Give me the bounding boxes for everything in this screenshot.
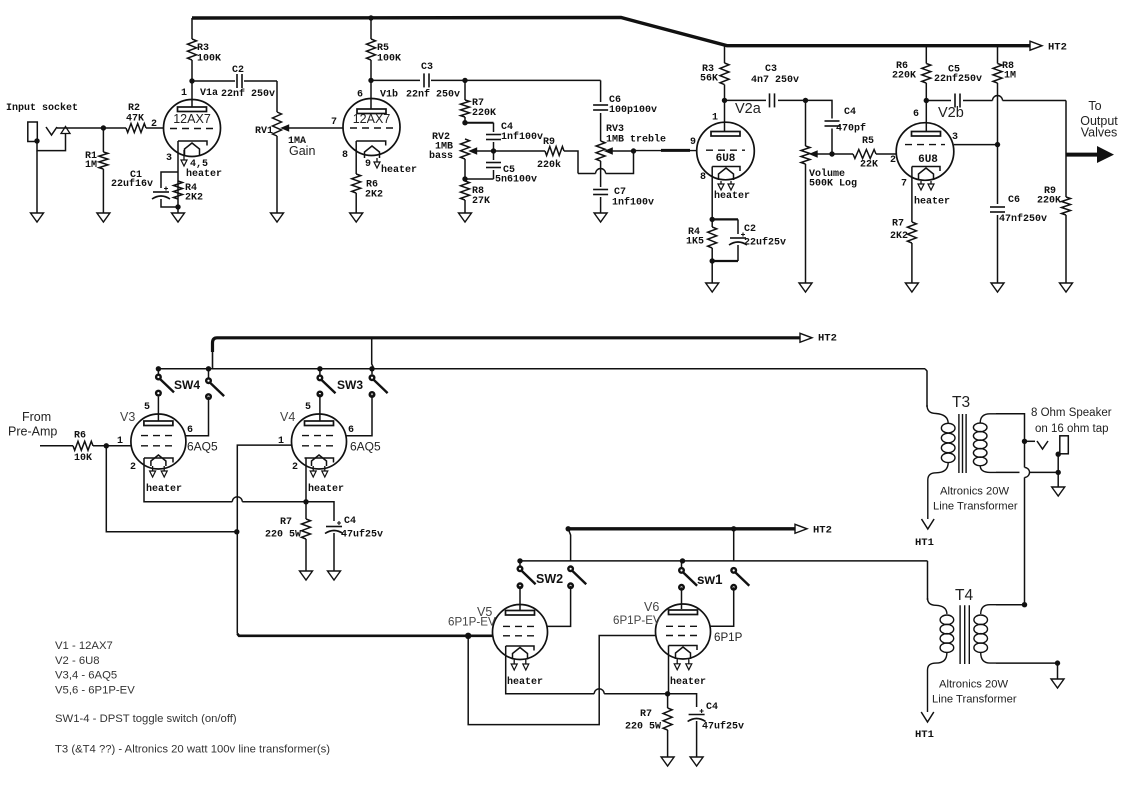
wire T3 secondary top — [996, 414, 1030, 605]
resistor R4 1K5 — [686, 227, 717, 283]
wire cathode bus V5/V6 — [506, 646, 697, 707]
svg-text:5n6100v: 5n6100v — [495, 175, 537, 186]
node tone stack top — [462, 78, 600, 83]
resistor R7 220K — [461, 80, 497, 122]
svg-text:1: 1 — [712, 113, 718, 124]
svg-text:22nf250v: 22nf250v — [934, 73, 982, 85]
node V1b plate — [368, 78, 373, 83]
svg-text:To: To — [1088, 99, 1101, 113]
resistor R6 220K (V2b) — [892, 46, 931, 132]
svg-text:V2a: V2a — [735, 101, 762, 117]
tube V3 6AQ5 — [117, 397, 218, 495]
resistor R4 2K2 — [174, 181, 204, 204]
label T4 transformer — [932, 679, 1017, 706]
svg-text:RV1: RV1 — [255, 126, 273, 137]
svg-text:7: 7 — [901, 179, 907, 190]
svg-text:2: 2 — [130, 462, 136, 473]
svg-text:C3: C3 — [765, 64, 777, 75]
Input socket label — [6, 102, 78, 114]
ground (R7) — [300, 571, 313, 580]
resistor R8 27K — [461, 181, 491, 213]
svg-text:V2 - 6U8: V2 - 6U8 — [55, 655, 100, 667]
node R7/C4 — [462, 120, 493, 125]
svg-text:56K: 56K — [700, 74, 718, 85]
wire V1a cathode — [177, 141, 179, 207]
svg-text:3: 3 — [952, 132, 958, 143]
tube V4 6AQ5 — [278, 394, 381, 495]
wire V6 screen to SW1 — [711, 587, 734, 626]
node volume wiper — [817, 151, 853, 156]
svg-text:8: 8 — [700, 172, 706, 183]
svg-text:12AX7: 12AX7 — [173, 112, 211, 126]
wire HT2 rail (output stage V3/V4) — [213, 338, 801, 369]
wire V4 screen to SW3 — [347, 395, 373, 436]
ground (RV1) — [271, 213, 284, 222]
capacitor C1 22uf16v — [111, 170, 178, 207]
capacitor C4 47uf25v (output) — [688, 702, 744, 757]
svg-text:9: 9 — [365, 159, 371, 170]
svg-text:220K: 220K — [1037, 196, 1061, 207]
svg-text:Line Transformer: Line Transformer — [932, 694, 1017, 706]
tube V2b 6U8 — [890, 105, 964, 208]
svg-text:HT2: HT2 — [813, 525, 832, 537]
svg-text:6: 6 — [913, 109, 919, 120]
svg-text:T3: T3 — [952, 394, 970, 411]
resistor R8 1M — [993, 46, 1016, 145]
wire V6 cathode — [668, 646, 670, 694]
svg-text:1M: 1M — [1004, 71, 1016, 82]
transformer T3 — [927, 394, 996, 519]
svg-text:100p100v: 100p100v — [609, 105, 657, 116]
svg-text:500K Log: 500K Log — [809, 179, 857, 190]
wire cathode bus V3/V4 — [144, 458, 334, 521]
wire screen bus (V5/V6 to T4) — [519, 561, 928, 600]
svg-text:C2: C2 — [232, 65, 244, 76]
svg-text:5: 5 — [305, 402, 311, 413]
svg-text:R5: R5 — [377, 43, 389, 54]
potentiometer RV3 1MB treble — [596, 124, 666, 161]
svg-text:C6: C6 — [1008, 195, 1020, 206]
svg-text:220 5W: 220 5W — [265, 530, 301, 541]
capacitor C2 22uf25v — [710, 219, 787, 263]
svg-text:47uf25v: 47uf25v — [702, 721, 744, 733]
svg-text:2K2: 2K2 — [185, 193, 203, 204]
svg-text:SW2: SW2 — [536, 572, 563, 586]
svg-text:C7: C7 — [614, 187, 626, 198]
wire SW2 feed — [568, 529, 570, 561]
svg-text:C2: C2 — [744, 224, 756, 235]
capacitor C2 22nf 250v — [192, 65, 277, 100]
tube V6 6P1P-EV — [613, 587, 743, 688]
svg-text:Valves: Valves — [1081, 126, 1118, 140]
wire V4 grid — [234, 445, 291, 634]
speaker jack — [1025, 407, 1112, 472]
svg-text:22uf16v: 22uf16v — [111, 178, 153, 190]
svg-text:4n7 250v: 4n7 250v — [751, 75, 799, 86]
svg-text:22nf 250v: 22nf 250v — [221, 88, 275, 100]
resistor R5 100K (V1b plate) — [367, 18, 402, 109]
svg-text:R2: R2 — [128, 103, 140, 114]
svg-text:V3,4 - 6AQ5: V3,4 - 6AQ5 — [55, 670, 117, 682]
svg-text:100K: 100K — [197, 54, 221, 65]
svg-text:V1 - 12AX7: V1 - 12AX7 — [55, 640, 113, 652]
svg-text:T4: T4 — [955, 587, 973, 604]
ground (V2a cathode) — [706, 283, 719, 292]
ground (C7) — [594, 213, 607, 222]
svg-text:6P1P-EV: 6P1P-EV — [448, 616, 496, 629]
svg-text:6AQ5: 6AQ5 — [187, 440, 218, 454]
svg-text:From: From — [22, 410, 51, 424]
svg-text:V5,6 - 6P1P-EV: V5,6 - 6P1P-EV — [55, 685, 135, 697]
svg-text:Input socket: Input socket — [6, 102, 78, 114]
svg-text:100K: 100K — [377, 54, 401, 65]
svg-text:HT2: HT2 — [1048, 42, 1067, 54]
note parts list — [55, 640, 330, 756]
svg-text:Altronics 20W: Altronics 20W — [939, 679, 1008, 691]
switch SW3 — [316, 366, 387, 398]
svg-text:2: 2 — [151, 119, 157, 130]
wire HT2 top rail — [192, 18, 1030, 46]
resistor R1 1M — [85, 128, 108, 213]
svg-text:47nf250v: 47nf250v — [999, 213, 1047, 225]
svg-text:heater: heater — [146, 483, 182, 495]
svg-text:6: 6 — [357, 90, 363, 101]
wire T4 secondary bottom — [996, 660, 1060, 679]
node HT2 arrow — [1030, 41, 1067, 53]
capacitor C3 22nf 250v — [371, 62, 465, 101]
svg-text:SW1-4 - DPST toggle switch (on: SW1-4 - DPST toggle switch (on/off) — [55, 713, 237, 725]
ground (volume) — [799, 283, 812, 292]
wire HT2 rail (V5/V6) — [566, 526, 796, 531]
svg-text:R9: R9 — [543, 137, 555, 148]
svg-text:1nf100v: 1nf100v — [501, 131, 543, 143]
tube V2a 6U8 — [690, 101, 762, 202]
capacitor C4 1nf100v — [486, 122, 543, 151]
node HT2 arrow 3 — [795, 524, 832, 536]
node V2b anode — [954, 142, 1000, 147]
svg-text:5: 5 — [144, 402, 150, 413]
ground (C4 output) — [690, 757, 703, 766]
svg-text:2: 2 — [292, 462, 298, 473]
node RV2 bottom — [462, 159, 493, 182]
svg-text:6: 6 — [348, 425, 354, 436]
node V2a plate — [722, 98, 727, 103]
svg-text:470pf: 470pf — [836, 123, 866, 135]
wire V3 screen to SW4 — [186, 397, 209, 436]
ground (R1) — [97, 213, 110, 222]
wire V5 screen to SW2 — [548, 586, 571, 627]
ground (R8) — [459, 213, 472, 222]
wire V1b cathode / resistor R6 2K2 — [352, 141, 383, 213]
capacitor C4 470pf — [806, 100, 867, 154]
svg-text:R6: R6 — [74, 431, 86, 442]
ground (speaker) — [1052, 487, 1065, 496]
svg-text:C3: C3 — [421, 62, 433, 73]
wire V2b cathode / resistor R7 2K2 — [890, 167, 916, 284]
svg-text:6U8: 6U8 — [918, 154, 938, 166]
svg-text:6AQ5: 6AQ5 — [350, 440, 381, 454]
wire V4 cathode — [305, 458, 307, 502]
svg-text:6P1P: 6P1P — [714, 631, 743, 644]
svg-text:C4: C4 — [706, 702, 718, 713]
ground (C6) — [991, 283, 1004, 292]
svg-text:R7: R7 — [280, 517, 292, 528]
node V3 grid — [104, 443, 235, 532]
svg-text:2: 2 — [890, 155, 896, 166]
node C3/volume — [803, 98, 808, 103]
svg-text:8 Ohm Speaker: 8 Ohm Speaker — [1031, 407, 1112, 419]
svg-text:9: 9 — [690, 137, 696, 148]
svg-text:heater: heater — [714, 190, 750, 202]
ground (R9) — [1060, 283, 1073, 292]
svg-text:R5: R5 — [862, 136, 874, 147]
svg-text:220K: 220K — [892, 71, 916, 82]
svg-text:heater: heater — [308, 483, 344, 495]
svg-text:heater: heater — [670, 676, 706, 688]
svg-text:C4: C4 — [844, 107, 856, 118]
svg-text:6P1P-EV: 6P1P-EV — [613, 614, 661, 627]
svg-text:22K: 22K — [860, 160, 878, 171]
svg-text:R7: R7 — [640, 709, 652, 720]
ground (R7 V2b) — [905, 283, 918, 292]
svg-text:47K: 47K — [126, 114, 144, 125]
wire screen bus (V3/V4 to T3) — [158, 369, 927, 407]
svg-text:HT1: HT1 — [915, 537, 934, 549]
resistor R9 220k — [537, 137, 634, 174]
node V1a cathode gnd — [172, 204, 185, 222]
svg-text:heater: heater — [381, 164, 417, 176]
svg-text:27K: 27K — [472, 196, 490, 207]
capacitor C4 47uf25v — [325, 516, 383, 571]
svg-text:V1a: V1a — [200, 88, 218, 99]
svg-text:Altronics 20W: Altronics 20W — [940, 486, 1009, 498]
svg-text:7: 7 — [331, 117, 337, 128]
wire T4 secondary top — [996, 602, 1027, 607]
ground (T4 secondary) — [1051, 679, 1064, 688]
input jack J1 — [28, 122, 70, 151]
svg-text:R3: R3 — [197, 43, 209, 54]
svg-text:3: 3 — [166, 153, 172, 164]
svg-text:Pre-Amp: Pre-Amp — [8, 425, 57, 439]
switch SW2 — [517, 558, 587, 589]
resistor R7 220 5W (output) — [625, 694, 672, 757]
svg-text:Gain: Gain — [289, 144, 315, 158]
svg-text:heater: heater — [186, 168, 222, 180]
svg-text:8: 8 — [342, 150, 348, 161]
tube V1a 12AX7 — [151, 88, 222, 180]
node RV3 wiper — [613, 148, 697, 153]
transformer T4 — [928, 587, 997, 712]
svg-text:heater: heater — [507, 676, 543, 688]
capacitor C7 1nf100v — [593, 161, 654, 213]
ground (R7 output) — [661, 757, 674, 766]
resistor R3 56K (V2a) — [700, 46, 729, 132]
svg-text:1nf100v: 1nf100v — [612, 197, 654, 209]
svg-text:on 16 ohm tap: on 16 ohm tap — [1035, 423, 1109, 435]
svg-text:C4: C4 — [344, 516, 356, 527]
svg-text:2K2: 2K2 — [365, 190, 383, 201]
svg-text:22uf25v: 22uf25v — [744, 237, 786, 249]
svg-text:6: 6 — [187, 425, 193, 436]
tube V1b 12AX7 — [331, 89, 417, 177]
ground (R6) — [350, 213, 363, 222]
svg-text:1MB treble: 1MB treble — [606, 134, 666, 146]
capacitor C6 100p100v — [593, 80, 657, 141]
svg-text:220 5W: 220 5W — [625, 722, 661, 733]
wire input to grid — [57, 127, 126, 129]
label T3 transformer — [933, 486, 1018, 513]
svg-text:V4: V4 — [280, 410, 295, 424]
capacitor C5 22nf250v — [926, 65, 1066, 108]
svg-text:SW4: SW4 — [174, 378, 200, 392]
wire SW1 feed — [733, 529, 735, 561]
svg-text:2K2: 2K2 — [890, 231, 908, 242]
svg-text:R7: R7 — [892, 219, 904, 230]
node HT1 (T4) — [915, 712, 934, 741]
svg-text:6U8: 6U8 — [716, 153, 736, 165]
node output arrow To Output Valves — [1066, 99, 1118, 163]
svg-text:22nf 250v: 22nf 250v — [406, 89, 460, 101]
wire grid bus V5/V6 — [237, 633, 655, 725]
wire T3 secondary bottom — [996, 470, 1061, 487]
ground (C4) — [328, 571, 341, 580]
resistor R7 220 5W — [265, 502, 311, 571]
node rail R5 — [368, 15, 373, 20]
svg-text:Line Transformer: Line Transformer — [933, 501, 1018, 513]
svg-text:220k: 220k — [537, 159, 561, 171]
capacitor C6 47nf250v — [990, 145, 1047, 283]
potentiometer Volume 500K Log — [801, 100, 857, 283]
svg-text:SW3: SW3 — [337, 378, 363, 392]
svg-text:1M: 1M — [85, 160, 97, 171]
capacitor C5 5n6100v — [486, 151, 537, 186]
node HT1 (T3) — [915, 519, 934, 549]
node RV2 wiper — [477, 148, 545, 153]
node V1a plate — [189, 78, 194, 83]
svg-text:bass: bass — [429, 150, 453, 162]
potentiometer RV2 1MB bass — [429, 132, 477, 162]
resistor R3 100K (V1a plate) — [188, 18, 222, 107]
svg-text:sw1: sw1 — [697, 572, 723, 587]
svg-text:V3: V3 — [120, 410, 135, 424]
capacitor C3 4n7 250v — [725, 64, 806, 107]
svg-text:12AX7: 12AX7 — [353, 112, 391, 126]
svg-text:RV3: RV3 — [606, 124, 624, 135]
svg-text:V6: V6 — [644, 600, 659, 614]
svg-text:1K5: 1K5 — [686, 237, 704, 248]
svg-text:heater: heater — [914, 196, 950, 208]
tube V5 6P1P-EV — [448, 586, 548, 688]
potentiometer RV1 1MA Gain — [255, 81, 343, 213]
node input junction — [101, 125, 106, 130]
switch SW1 — [678, 558, 749, 591]
resistor R5 22K — [853, 136, 897, 171]
switch SW4 — [155, 366, 224, 400]
node HT2 arrow 2 — [800, 333, 837, 345]
svg-text:T3 (&T4 ??) - Altronics 20 wat: T3 (&T4 ??) - Altronics 20 watt 100v lin… — [55, 744, 330, 756]
resistor R2 47K — [126, 103, 164, 133]
svg-text:HT1: HT1 — [915, 729, 934, 741]
resistor R6 10K (input) — [8, 410, 131, 464]
ground (input jack) — [31, 151, 44, 222]
svg-text:HT2: HT2 — [818, 333, 837, 345]
svg-text:10K: 10K — [74, 453, 92, 464]
svg-text:1: 1 — [181, 88, 187, 99]
node V2b plate top — [924, 98, 929, 103]
wire V2a cathode — [710, 167, 715, 228]
svg-text:47uf25v: 47uf25v — [341, 529, 383, 541]
svg-text:V1b: V1b — [380, 89, 398, 101]
wire SW3 feed — [372, 338, 374, 369]
resistor R9 220K — [1037, 101, 1071, 284]
svg-text:220K: 220K — [472, 108, 496, 119]
